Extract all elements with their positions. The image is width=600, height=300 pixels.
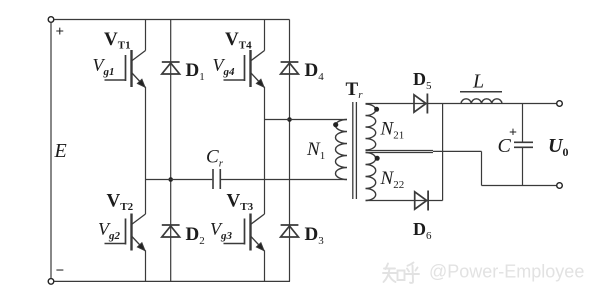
svg-text:Vg1: Vg1	[93, 55, 115, 78]
svg-text:VT4: VT4	[225, 29, 252, 52]
svg-text:E: E	[54, 140, 67, 162]
svg-text:N1: N1	[306, 139, 325, 162]
svg-text:L: L	[472, 71, 484, 93]
svg-text:D1: D1	[186, 60, 205, 83]
svg-text:VT3: VT3	[227, 190, 254, 213]
svg-text:+: +	[509, 126, 517, 141]
svg-text:D2: D2	[186, 224, 205, 247]
svg-text:Vg2: Vg2	[98, 219, 121, 242]
svg-text:Vg4: Vg4	[213, 55, 236, 78]
svg-text:D4: D4	[305, 60, 325, 83]
svg-text:U0: U0	[548, 135, 568, 159]
svg-text:@Power-Employee: @Power-Employee	[429, 262, 584, 282]
svg-text:−: −	[56, 263, 65, 279]
svg-text:Vg3: Vg3	[210, 219, 233, 242]
svg-text:N22: N22	[380, 168, 405, 191]
svg-text:Tr: Tr	[346, 79, 364, 101]
svg-text:D3: D3	[305, 224, 325, 247]
svg-text:VT1: VT1	[104, 29, 131, 52]
svg-text:VT2: VT2	[107, 190, 134, 213]
svg-text:D5: D5	[413, 69, 432, 92]
svg-text:+: +	[56, 24, 65, 40]
svg-text:Cr: Cr	[206, 146, 224, 169]
svg-text:D6: D6	[413, 219, 432, 242]
svg-text:N21: N21	[380, 118, 405, 141]
